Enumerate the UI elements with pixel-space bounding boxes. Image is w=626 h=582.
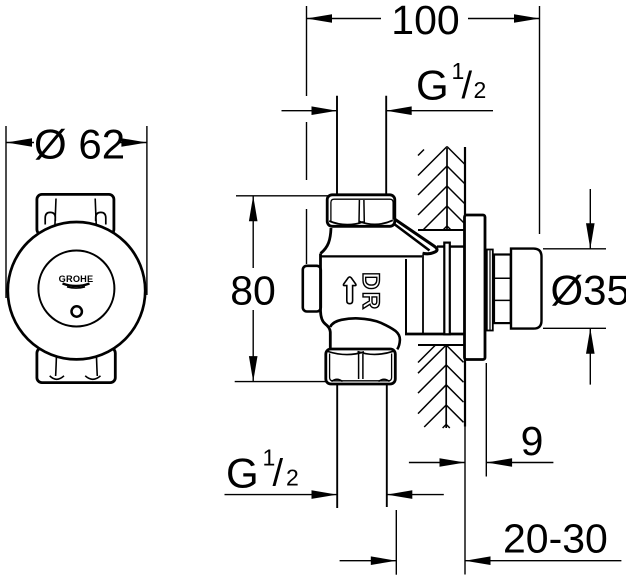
valve: outlet cone xyxy=(384,212,438,254)
dimension 80 extension lines xyxy=(235,196,330,382)
extension line right of 100 (button front) xyxy=(539,6,541,234)
valve: body block xyxy=(303,228,422,349)
svg-text:9: 9 xyxy=(521,418,544,464)
extension line left of 100 (valve rear face) xyxy=(306,6,308,264)
dimension 9 extension line (flange front) xyxy=(485,363,487,477)
wall: upper hole top edge xyxy=(418,229,465,231)
dimension Ø35 extension lines xyxy=(543,249,606,328)
svg-text:100: 100 xyxy=(391,0,459,43)
valve: top hex nut xyxy=(327,195,395,227)
wall: finished surface line xyxy=(464,147,466,427)
dimension 80 arrowheads xyxy=(249,196,258,382)
dimension G1/2 top arrowheads xyxy=(312,106,412,115)
valve: bottom hex nut xyxy=(326,349,396,384)
dimension Ø35 arrowheads xyxy=(586,223,595,353)
dimension G1/2 bottom text xyxy=(226,445,299,497)
dimension G1/2 bottom leaders xyxy=(225,494,444,496)
dimension G1/2 top leaders xyxy=(282,110,494,112)
front view: pilot hole xyxy=(72,306,82,316)
button: hex adapter xyxy=(494,255,511,324)
dimension Ø62 xyxy=(6,126,147,298)
wall: lower section hatching xyxy=(418,345,464,428)
dimension 20-30 leaders xyxy=(340,560,622,562)
front view: inner circle xyxy=(38,251,114,327)
svg-text:/: / xyxy=(462,65,473,107)
dimension 20-30 extension line (pipe thread end) xyxy=(395,510,397,575)
valve: sleeve ring xyxy=(444,243,450,335)
wall: lower hole bottom edge xyxy=(418,344,464,346)
body left (rear) face xyxy=(321,254,331,350)
svg-text:20-30: 20-30 xyxy=(503,516,608,562)
svg-text:2: 2 xyxy=(286,465,299,491)
wall: upper spine xyxy=(446,148,448,230)
front view: top hex nut xyxy=(37,194,114,234)
neck S-curve below top nut xyxy=(321,228,332,254)
bottom dome xyxy=(330,318,400,349)
body top edge xyxy=(321,255,422,257)
dimension 20-30 arrowheads xyxy=(371,556,491,565)
valve: wall sleeve xyxy=(405,247,464,334)
wall: lower spine xyxy=(445,346,447,428)
dimension Ø35 arrow lines xyxy=(589,189,591,385)
valve: top inlet pipe xyxy=(337,96,386,194)
svg-text:Ø 62: Ø 62 xyxy=(34,121,125,168)
svg-text:/: / xyxy=(273,453,284,495)
front view: GROHE logo xyxy=(59,274,94,288)
svg-text:Ø35: Ø35 xyxy=(551,266,626,313)
svg-text:80: 80 xyxy=(230,268,276,314)
dimension 80 line xyxy=(252,196,254,382)
front view: cover plate outer circle xyxy=(8,222,145,359)
valve: bottom outlet pipe xyxy=(337,384,387,508)
dimension 100 line xyxy=(307,18,540,20)
wall surface extension line (lower, thin) xyxy=(464,427,466,575)
valve: flow direction arrow xyxy=(343,277,356,304)
dimension G1/2 bottom arrowheads xyxy=(312,490,413,499)
dimension 100 arrowheads xyxy=(307,14,540,23)
svg-text:DR: DR xyxy=(357,272,384,311)
svg-text:2: 2 xyxy=(474,77,487,103)
dimension 9 leaders xyxy=(409,462,554,464)
svg-text:G: G xyxy=(226,450,259,497)
body right face xyxy=(405,259,407,334)
front view: bottom hex nut xyxy=(37,348,115,383)
button: push cap xyxy=(511,249,542,329)
svg-text:G: G xyxy=(416,62,449,109)
plug on rear face xyxy=(303,266,321,312)
dimension Ø62 arrowheads xyxy=(7,138,147,147)
button: collar xyxy=(487,250,493,331)
flange (escutcheon) xyxy=(465,215,486,360)
svg-text:GROHE: GROHE xyxy=(59,274,94,284)
dimension G1/2 top text xyxy=(416,58,486,109)
dimension 9 arrowheads xyxy=(440,458,513,467)
wall: upper section hatching xyxy=(418,147,465,231)
